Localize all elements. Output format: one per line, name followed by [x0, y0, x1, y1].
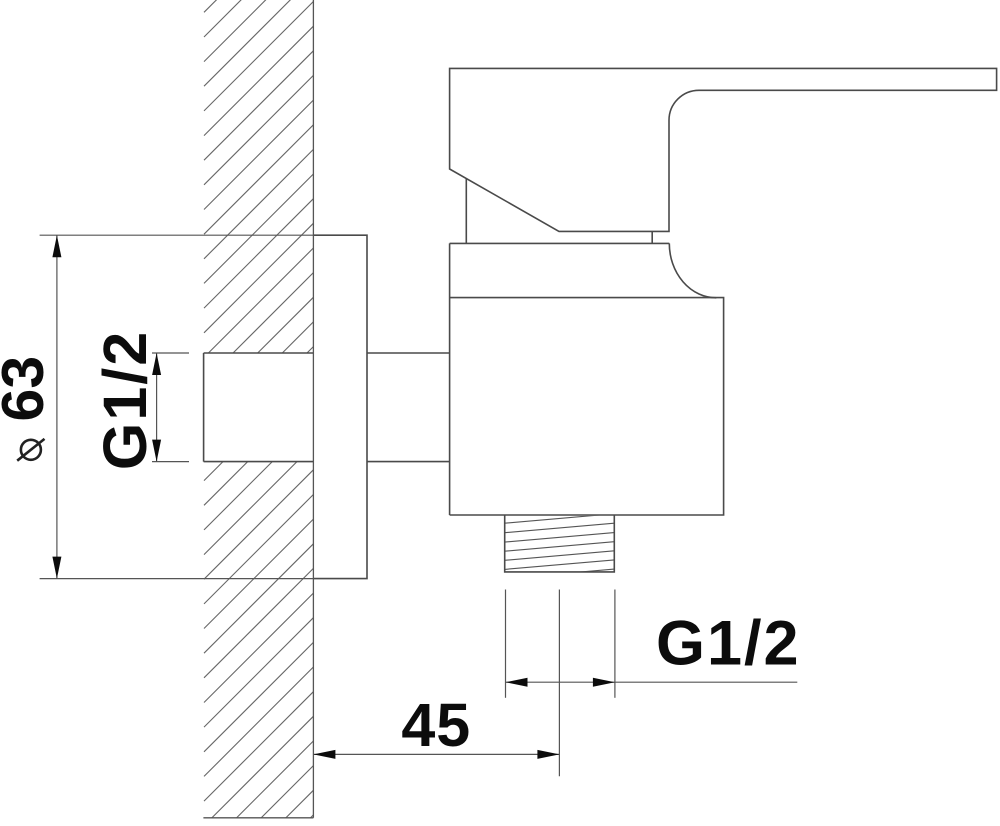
svg-text:G1/2: G1/2 — [91, 330, 159, 470]
svg-text:63: 63 — [0, 356, 56, 422]
svg-text:G1/2: G1/2 — [656, 609, 801, 679]
svg-text:45: 45 — [401, 691, 471, 759]
